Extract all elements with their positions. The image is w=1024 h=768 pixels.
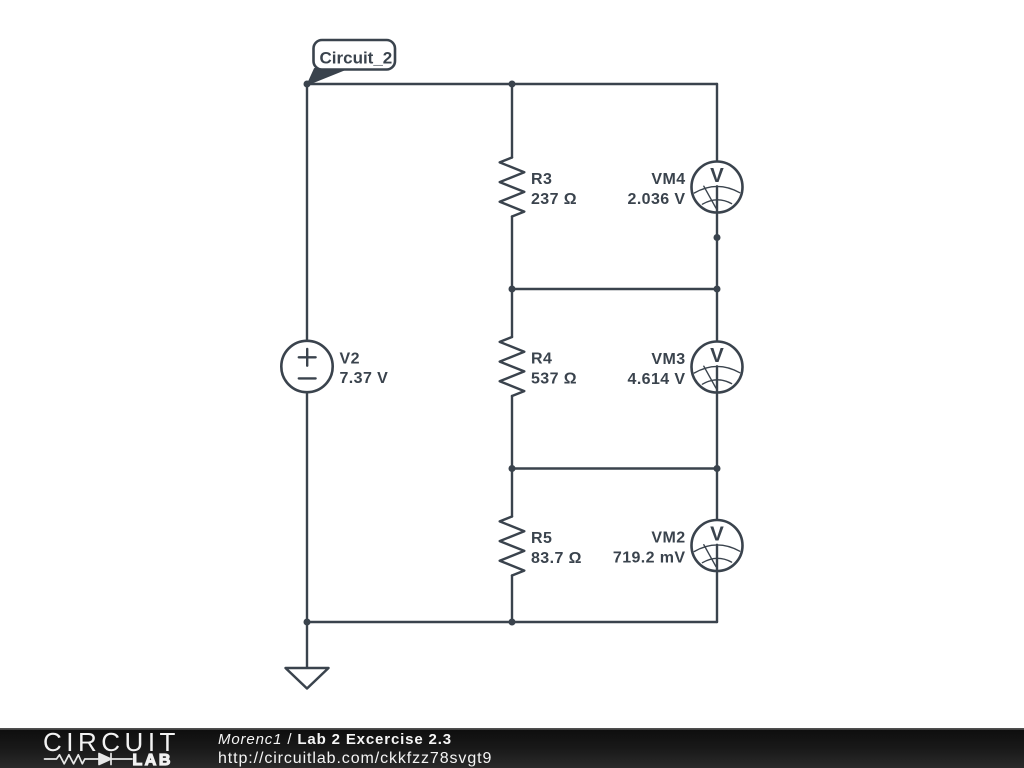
wire right column VM3 to row3 rail [716, 393, 718, 469]
svg-text:237 Ω: 237 Ω [531, 191, 577, 208]
junction dot row3 rail / middle column [509, 465, 516, 472]
svg-text:VM2: VM2 [651, 530, 685, 547]
wire middle column above R3 [511, 84, 513, 158]
voltmeter VM2 [613, 520, 743, 571]
wire left column lower (V2 bottom to bottom rail) [306, 392, 308, 622]
wire row2 horizontal rail [512, 288, 717, 290]
CircuitLab logo symbol (resistor + diode) [45, 754, 133, 765]
svg-text:VM3: VM3 [651, 351, 685, 368]
wire middle column R5 to bottom rail [511, 576, 513, 623]
wire right column row3 rail to VM2 [716, 469, 718, 521]
wire bottom horizontal rail [307, 621, 717, 623]
junction dot top rail / middle column [509, 81, 516, 88]
junction dot row2 rail / right column [714, 286, 721, 293]
wire middle column R3 to row2 rail [511, 217, 513, 290]
resistor R4 [500, 337, 577, 396]
node flag Circuit_2 [307, 40, 395, 85]
wire left column upper (node A to V2 top) [306, 84, 308, 341]
wire top horizontal from node A to right column [307, 83, 717, 85]
svg-text:7.37 V: 7.37 V [340, 370, 389, 387]
svg-text:R4: R4 [531, 351, 552, 368]
resistor R3 [500, 158, 577, 217]
svg-text:Circuit_2: Circuit_2 [320, 48, 393, 67]
voltage source V2 [281, 341, 388, 392]
svg-text:V2: V2 [340, 350, 360, 367]
svg-text:V: V [710, 164, 724, 187]
svg-text:R3: R3 [531, 171, 552, 188]
svg-text:VM4: VM4 [651, 171, 685, 188]
resistor R5 [500, 517, 582, 576]
svg-text:V: V [710, 344, 724, 367]
node A junction dot (top-left) [304, 81, 311, 88]
junction dot below VM4 [714, 234, 721, 241]
voltmeter VM4 [628, 162, 743, 213]
svg-text:Morenc1 / Lab 2 Excercise 2.3: Morenc1 / Lab 2 Excercise 2.3 [218, 731, 452, 748]
wire row3 horizontal rail [512, 467, 717, 469]
wire middle column row3 rail to R5 [511, 469, 513, 517]
voltmeter VM3 [628, 342, 743, 393]
wire right column row2 rail to VM3 [716, 289, 718, 342]
svg-text:4.614 V: 4.614 V [628, 371, 686, 388]
svg-text:V: V [710, 523, 724, 546]
svg-text:83.7 Ω: 83.7 Ω [531, 550, 582, 567]
wire right column VM2 to bottom rail [716, 571, 718, 622]
svg-text:537 Ω: 537 Ω [531, 371, 577, 388]
wire right column VM4 to row2 rail [716, 213, 718, 290]
wire right column top rail to VM4 [716, 84, 718, 162]
wire middle column R4 to row3 rail [511, 396, 513, 469]
junction dot row2 rail / middle column [509, 286, 516, 293]
wire middle column row2 rail to R4 [511, 289, 513, 337]
svg-text:http://circuitlab.com/ckkfzz78: http://circuitlab.com/ckkfzz78svgt9 [218, 750, 492, 767]
svg-text:LAB: LAB [133, 752, 173, 768]
footer bar [0, 728, 1024, 768]
junction dot row3 rail / right column [714, 465, 721, 472]
ground [286, 622, 329, 689]
svg-text:719.2 mV: 719.2 mV [613, 550, 686, 567]
svg-text:R5: R5 [531, 530, 552, 547]
svg-text:2.036 V: 2.036 V [628, 191, 686, 208]
junction dot bottom rail / middle column [509, 619, 516, 626]
junction dot bottom rail / left column [304, 619, 311, 626]
